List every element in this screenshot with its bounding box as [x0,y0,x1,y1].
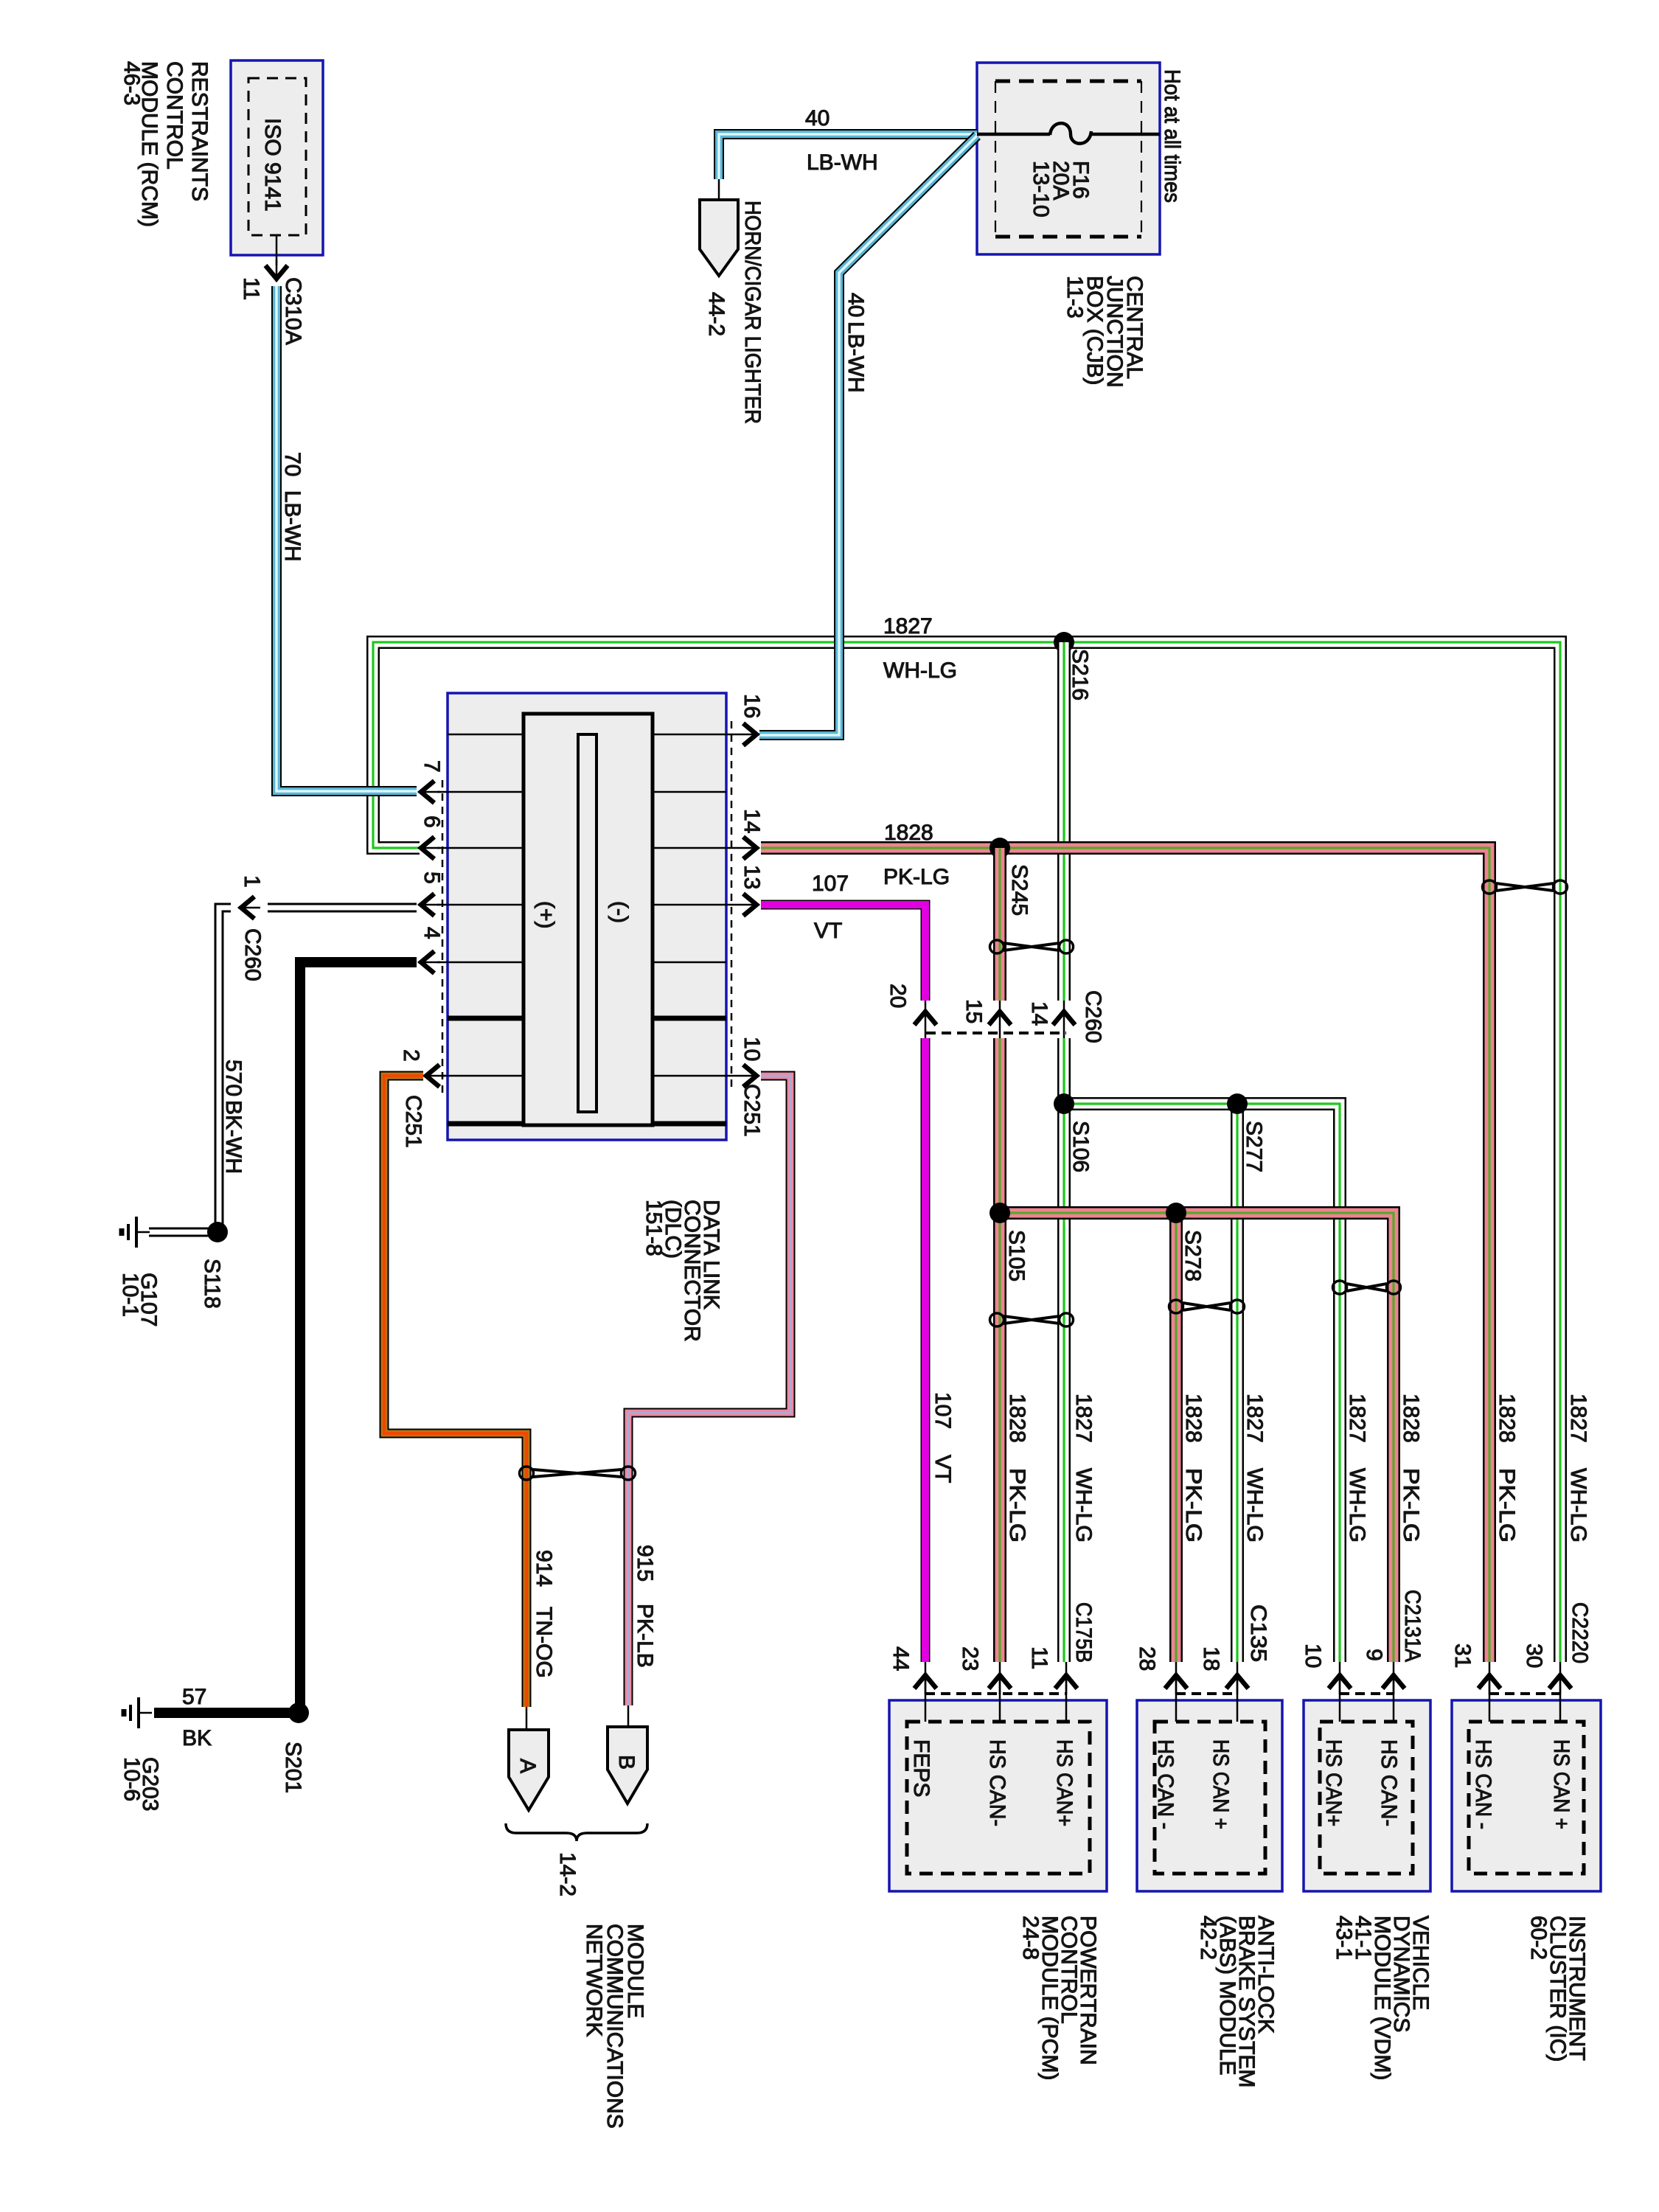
svg-text:WH-LG: WH-LG [1566,1468,1590,1543]
svg-text:18: 18 [1199,1646,1223,1671]
svg-text:PK-LG: PK-LG [1181,1468,1206,1543]
wire 57 BK to G203 [154,1708,291,1718]
svg-text:HORN/CIGAR LIGHTER: HORN/CIGAR LIGHTER [740,201,765,424]
svg-text:10: 10 [740,1037,764,1061]
svg-text:PK-LB: PK-LB [633,1604,657,1668]
DLC dashed connector boundary left [442,780,444,1093]
svg-text:107: 107 [812,872,849,896]
svg-text:S201: S201 [281,1742,305,1793]
svg-text:WH-LG: WH-LG [1242,1468,1267,1543]
svg-text:HS CAN+: HS CAN+ [1052,1739,1077,1826]
wire 570 BK-WH to S118 [219,908,231,1224]
VDM pin arrow 10 [1329,1662,1351,1694]
svg-text:RESTRAINTS: RESTRAINTS [187,61,212,201]
svg-text:60-2: 60-2 [1526,1916,1551,1960]
DLC left pin arrow [418,837,440,859]
svg-text:C260: C260 [240,928,265,981]
connector dashed line IC [1489,1692,1560,1695]
svg-text:FEPS: FEPS [909,1739,933,1797]
svg-text:HS CAN +: HS CAN + [1549,1739,1573,1829]
PCM pin arrow 44 [914,1662,936,1694]
module RCM box [231,60,323,255]
wire S118 to G107 [149,1228,209,1237]
DLC right pin arrow [737,723,759,745]
ABS pin arrow 28 [1165,1662,1187,1694]
connector arrow B [608,1727,647,1804]
svg-text:(+): (+) [534,901,558,929]
svg-text:107: 107 [931,1392,955,1429]
connector dashed line ABS [1176,1692,1237,1695]
wire 915 PK-LB [628,1076,790,1705]
svg-text:44: 44 [888,1646,913,1671]
svg-text:14-2: 14-2 [555,1852,580,1896]
svg-text:(-): (-) [608,901,632,923]
svg-text:151-8: 151-8 [641,1200,666,1256]
DLC left pin arrow [418,894,440,916]
wire 1828 to PCM pin 23 [993,1038,1006,1662]
inline connector on VDM pair [1333,1281,1401,1294]
inline connector on A/B pair [520,1467,636,1480]
wire 70 LB-WH [276,286,417,791]
connector dashed line VDM [1340,1692,1394,1695]
DLC left pin arrow [418,951,440,973]
svg-text:WH-LG: WH-LG [1071,1468,1096,1543]
DLC inner slot [578,734,597,1112]
VDM pin arrow 9 [1382,1662,1405,1694]
svg-text:10: 10 [1301,1644,1325,1668]
connector arrow A [509,1730,549,1810]
svg-text:A: A [515,1759,540,1773]
svg-text:Hot at all times: Hot at all times [1160,69,1184,203]
pin 20 arrow [914,1001,936,1038]
svg-text:5: 5 [420,872,444,884]
DLC left pin arrow [418,781,440,803]
svg-text:20: 20 [886,984,910,1008]
pin 15 arrow [989,1001,1011,1038]
svg-text:24-8: 24-8 [1018,1916,1043,1960]
svg-text:6: 6 [420,815,444,828]
lead to B [627,1705,630,1727]
DLC left pin arrow [423,1065,445,1087]
svg-text:C251: C251 [401,1095,425,1148]
svg-text:C251: C251 [740,1084,764,1137]
svg-text:PK-LG: PK-LG [1399,1468,1423,1543]
connector DLC box [448,693,726,1140]
module ABS box [1137,1700,1282,1891]
IC pin arrow 31 [1478,1662,1500,1694]
svg-text:9: 9 [1362,1649,1386,1661]
DLC pin stub rows [448,734,726,736]
svg-text:1828: 1828 [1399,1394,1423,1443]
inline connector on IC pair [1483,880,1568,894]
splice S216 [1054,632,1074,653]
svg-text:PK-LG: PK-LG [1495,1468,1519,1543]
svg-text:57: 57 [182,1685,206,1709]
svg-text:16: 16 [740,694,764,718]
IC pin arrow 30 [1549,1662,1571,1694]
module CJB box [977,63,1160,254]
ground G107 [122,1217,150,1248]
svg-text:1827: 1827 [1566,1394,1590,1443]
svg-text:1828: 1828 [1005,1394,1029,1443]
connector C260 arrow pin 1 [238,897,260,919]
svg-text:HS CAN-: HS CAN- [1377,1739,1401,1826]
wire RCM pin 11 lead [276,235,278,265]
svg-text:1827: 1827 [1345,1394,1369,1443]
PCM pin arrow 11 [1055,1662,1077,1694]
svg-text:1827: 1827 [1071,1394,1096,1443]
svg-text:BK: BK [182,1726,212,1750]
svg-text:11: 11 [1027,1646,1051,1669]
wire 57 BK from pin 4 [300,962,417,1705]
svg-text:LB-WH: LB-WH [844,321,868,393]
wire 1827 S106 to VDM pin10 [1064,1104,1340,1662]
svg-text:HS CAN+: HS CAN+ [1321,1739,1346,1826]
wire 107 VT to PCM pin44 [921,1038,931,1662]
splice S277 [1227,1093,1248,1114]
svg-text:42-2: 42-2 [1196,1916,1220,1960]
wire 1828 S105 to VDM pin9 [1000,1213,1394,1662]
svg-text:HS CAN -: HS CAN - [1153,1739,1178,1829]
svg-text:TN-OG: TN-OG [532,1607,556,1678]
svg-text:BK-WH: BK-WH [221,1100,246,1174]
svg-text:13-10: 13-10 [1029,161,1053,218]
svg-text:HS CAN +: HS CAN + [1208,1739,1233,1829]
wire 107 VT upper [761,905,925,1001]
horn lead [718,179,720,200]
svg-text:46-3: 46-3 [119,61,144,105]
svg-text:S106: S106 [1068,1121,1093,1172]
connector dashed line PCM [925,1692,1066,1695]
wire 570 BK-WH right of C260 [268,903,417,913]
svg-text:1828: 1828 [1495,1394,1519,1443]
splice S106 [1054,1093,1074,1114]
wire 1827 to PCM pin 11 [1057,1038,1071,1662]
svg-text:C310A: C310A [281,277,305,345]
PCM pin arrow 23 [989,1662,1011,1694]
wire 1828 S245 down [993,848,1006,1001]
module IC box [1452,1700,1601,1891]
svg-text:C2131A: C2131A [1400,1590,1425,1662]
ABS pin arrow 18 [1226,1662,1248,1694]
svg-text:S216: S216 [1068,649,1092,700]
DLC right pin arrow [737,1065,759,1087]
svg-text:40: 40 [805,106,829,131]
inline connector on PCM pair upper [990,940,1074,953]
svg-text:ISO 9141: ISO 9141 [260,118,285,212]
lead to A [526,1707,528,1730]
svg-text:C260: C260 [1081,990,1105,1043]
svg-text:11-3: 11-3 [1062,276,1087,319]
svg-text:S118: S118 [200,1259,224,1309]
svg-text:HS CAN -: HS CAN - [1471,1739,1495,1829]
wire 1827 S277 to ABS pin18 [1231,1104,1244,1662]
svg-text:44-2: 44-2 [704,292,728,336]
svg-text:S277: S277 [1242,1121,1266,1172]
svg-text:WH-LG: WH-LG [883,658,957,683]
connector C310A arrow pin 11 [265,260,288,282]
svg-text:CONTROL: CONTROL [162,61,187,170]
ground G203 [124,1697,152,1728]
svg-text:28: 28 [1135,1646,1159,1671]
module VDM box [1304,1700,1430,1891]
wire 1828 S278 to ABS pin28 [1169,1213,1183,1662]
svg-text:43-1: 43-1 [1332,1916,1356,1960]
DLC dashed connector boundary right [731,721,733,1093]
wire 40 LB-WH diagonal to DLC pin16 [759,136,977,735]
svg-text:C2220: C2220 [1568,1602,1592,1663]
svg-text:1828: 1828 [1181,1394,1206,1443]
splice S105 [990,1203,1010,1223]
svg-text:23: 23 [958,1646,982,1671]
svg-text:LB-WH: LB-WH [807,150,878,175]
svg-text:S278: S278 [1180,1230,1205,1281]
module PCM box [889,1700,1107,1891]
svg-text:11: 11 [239,277,263,300]
ISO 9141 dashed box [248,78,306,235]
svg-text:C175B: C175B [1071,1602,1096,1663]
svg-text:4: 4 [420,927,444,939]
fuse F16 line [977,133,1050,136]
wire 40 LB-WH to horn [719,134,977,179]
pin 14 arrow [1053,1001,1075,1038]
splice S278 [1166,1203,1186,1223]
splice S118 [207,1222,228,1242]
DLC inner rectangle [524,714,653,1125]
svg-text:2: 2 [399,1049,423,1062]
svg-text:70: 70 [280,452,305,476]
wire 1827 S216 down [1057,642,1071,1001]
splice S201 [288,1703,309,1723]
svg-text:1: 1 [240,875,264,888]
svg-text:PK-LG: PK-LG [883,865,950,889]
DLC right pin arrow [737,837,759,859]
svg-text:B: B [614,1755,639,1770]
svg-text:HS CAN-: HS CAN- [985,1739,1009,1826]
inline connector on ABS pair [1169,1300,1245,1313]
svg-text:S245: S245 [1007,864,1032,916]
svg-text:NETWORK: NETWORK [582,1924,606,2037]
connector C260 dashed line [926,1032,1066,1034]
svg-text:PK-LG: PK-LG [1005,1468,1029,1543]
svg-text:30: 30 [1522,1644,1546,1668]
wire 1827 WH-LG main [373,642,1560,1662]
svg-text:10-1: 10-1 [118,1273,142,1317]
inline connector on PCM pair lower [990,1313,1074,1326]
svg-text:570: 570 [221,1060,246,1096]
svg-text:S105: S105 [1004,1230,1029,1281]
svg-text:915: 915 [633,1545,657,1582]
brace 14-2 [506,1823,647,1841]
svg-text:40: 40 [844,293,868,317]
connector arrow HORN/CIGAR LIGHTER [700,200,738,276]
svg-text:VT: VT [814,919,842,943]
svg-text:1827: 1827 [883,614,933,639]
svg-text:WH-LG: WH-LG [1345,1468,1369,1543]
svg-text:14: 14 [1027,1001,1051,1026]
fuse F16 element [1050,123,1091,144]
svg-text:C135: C135 [1246,1604,1270,1662]
svg-text:14: 14 [740,809,764,833]
svg-text:VT: VT [931,1455,955,1483]
wire 914 TN-OG [384,1076,526,1707]
splice S245 [990,838,1010,858]
svg-text:1827: 1827 [1242,1394,1267,1443]
DLC right pin arrow [737,894,759,916]
wire 1828 PK-LG main [761,848,1489,1662]
svg-text:914: 914 [532,1550,556,1587]
svg-text:7: 7 [420,760,444,773]
svg-text:13: 13 [740,865,764,889]
svg-text:LB-WH: LB-WH [280,490,305,562]
svg-text:15: 15 [961,999,986,1023]
CJB inner dashed box [995,80,1141,83]
svg-text:31: 31 [1450,1644,1475,1668]
svg-text:10-6: 10-6 [119,1757,144,1801]
svg-text:1828: 1828 [884,821,933,845]
